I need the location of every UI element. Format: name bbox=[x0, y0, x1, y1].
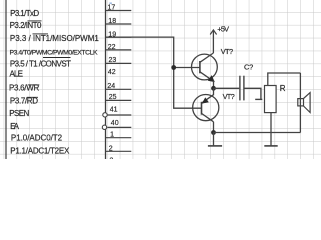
svg-text:C?: C? bbox=[244, 62, 253, 71]
svg-text:18: 18 bbox=[108, 18, 116, 25]
IC U1 right edge bbox=[105, 0, 107, 159]
pin 17 P3.1/TxD bbox=[10, 5, 131, 18]
svg-text:PSEN: PSEN bbox=[9, 109, 29, 118]
junction bottom node bbox=[211, 130, 216, 135]
pin 42 ALE bbox=[10, 69, 116, 78]
svg-text:VT?: VT? bbox=[221, 47, 233, 56]
svg-text:P3.4/T0/PWMC/PWM0/EXTCLK: P3.4/T0/PWMC/PWM0/EXTCLK bbox=[10, 49, 98, 56]
transistor VT? top (NPN) bbox=[192, 47, 234, 82]
svg-text:P3.3 / INT1/MISO/PWM1: P3.3 / INT1/MISO/PWM1 bbox=[10, 34, 99, 43]
wire branch to top base bbox=[174, 67, 200, 69]
pin 1 P1.0/ADC0/T2 bbox=[11, 132, 131, 143]
svg-text:R: R bbox=[280, 84, 286, 93]
svg-text:2: 2 bbox=[109, 146, 113, 153]
svg-text:P1.0/ADC0/T2: P1.0/ADC0/T2 bbox=[11, 134, 63, 143]
svg-text:41: 41 bbox=[110, 106, 118, 113]
wire speaker vertical bbox=[299, 73, 301, 133]
capacitor C? bbox=[214, 62, 254, 100]
wire bottom rail to speaker bbox=[214, 132, 301, 134]
ground (below resistor) bbox=[264, 145, 277, 147]
wire capacitor to resistor bbox=[245, 88, 263, 99]
svg-text:P3.1/TxD: P3.1/TxD bbox=[10, 9, 39, 18]
IC U1 left edge bbox=[5, 0, 7, 159]
svg-text:23: 23 bbox=[109, 57, 117, 64]
net marker (blue) bbox=[109, 3, 112, 4]
pin 25 P3.7/RD bbox=[10, 94, 131, 106]
pin 23 P3.5/T1/CONVST bbox=[10, 57, 131, 69]
svg-text:P3.5 / T1 /CONVST: P3.5 / T1 /CONVST bbox=[10, 60, 71, 69]
svg-text:VT?: VT? bbox=[223, 92, 235, 101]
svg-text:1: 1 bbox=[110, 132, 114, 139]
svg-text:40: 40 bbox=[111, 120, 119, 127]
resistor R bbox=[265, 84, 286, 113]
svg-text:25: 25 bbox=[109, 94, 117, 101]
svg-text:ALE: ALE bbox=[10, 70, 24, 79]
wire node to bottom emitter bbox=[213, 88, 215, 95]
svg-text:P1.1/ADC1/T2EX: P1.1/ADC1/T2EX bbox=[10, 146, 70, 155]
junction node emitters bbox=[211, 86, 216, 91]
svg-text:EA: EA bbox=[10, 122, 20, 131]
wire P3.3 to transistor bases bbox=[106, 37, 202, 108]
svg-text:+5V: +5V bbox=[217, 25, 229, 34]
pin 2 P1.1/ADC1/T2EX bbox=[10, 146, 131, 156]
wire top emitter to node bbox=[213, 81, 215, 89]
wire bottom collector to node bbox=[213, 122, 215, 133]
svg-text:P3.7/RD: P3.7/RD bbox=[10, 97, 38, 106]
pin 24 P3.6/WR bbox=[9, 83, 131, 92]
wire resistor bottom to ground bbox=[270, 113, 272, 146]
svg-text:24: 24 bbox=[107, 83, 115, 90]
svg-text:22: 22 bbox=[108, 44, 116, 51]
pin 22 P3.4/T0/PWMC/PWM0/EXTCLK bbox=[10, 44, 132, 56]
pin 18 P3.2/INT0 bbox=[10, 18, 132, 30]
svg-text:3: 3 bbox=[110, 157, 114, 159]
svg-text:P3.2/INT0: P3.2/INT0 bbox=[10, 21, 42, 30]
wire resistor top to speaker top bbox=[268, 73, 301, 86]
junction node base split bbox=[171, 65, 176, 70]
pin 19 P3.3/INT1/MISO/PWM1 bbox=[10, 31, 131, 43]
pin 40 EA bbox=[10, 120, 131, 131]
power +5V bbox=[210, 25, 229, 53]
svg-text:42: 42 bbox=[108, 69, 116, 76]
speaker LS bbox=[298, 93, 310, 113]
ground (below transistors) bbox=[208, 133, 222, 146]
svg-text:17: 17 bbox=[108, 5, 116, 12]
pin 41 PSEN bbox=[9, 106, 131, 118]
transistor VT? bottom (PNP) bbox=[193, 92, 235, 122]
